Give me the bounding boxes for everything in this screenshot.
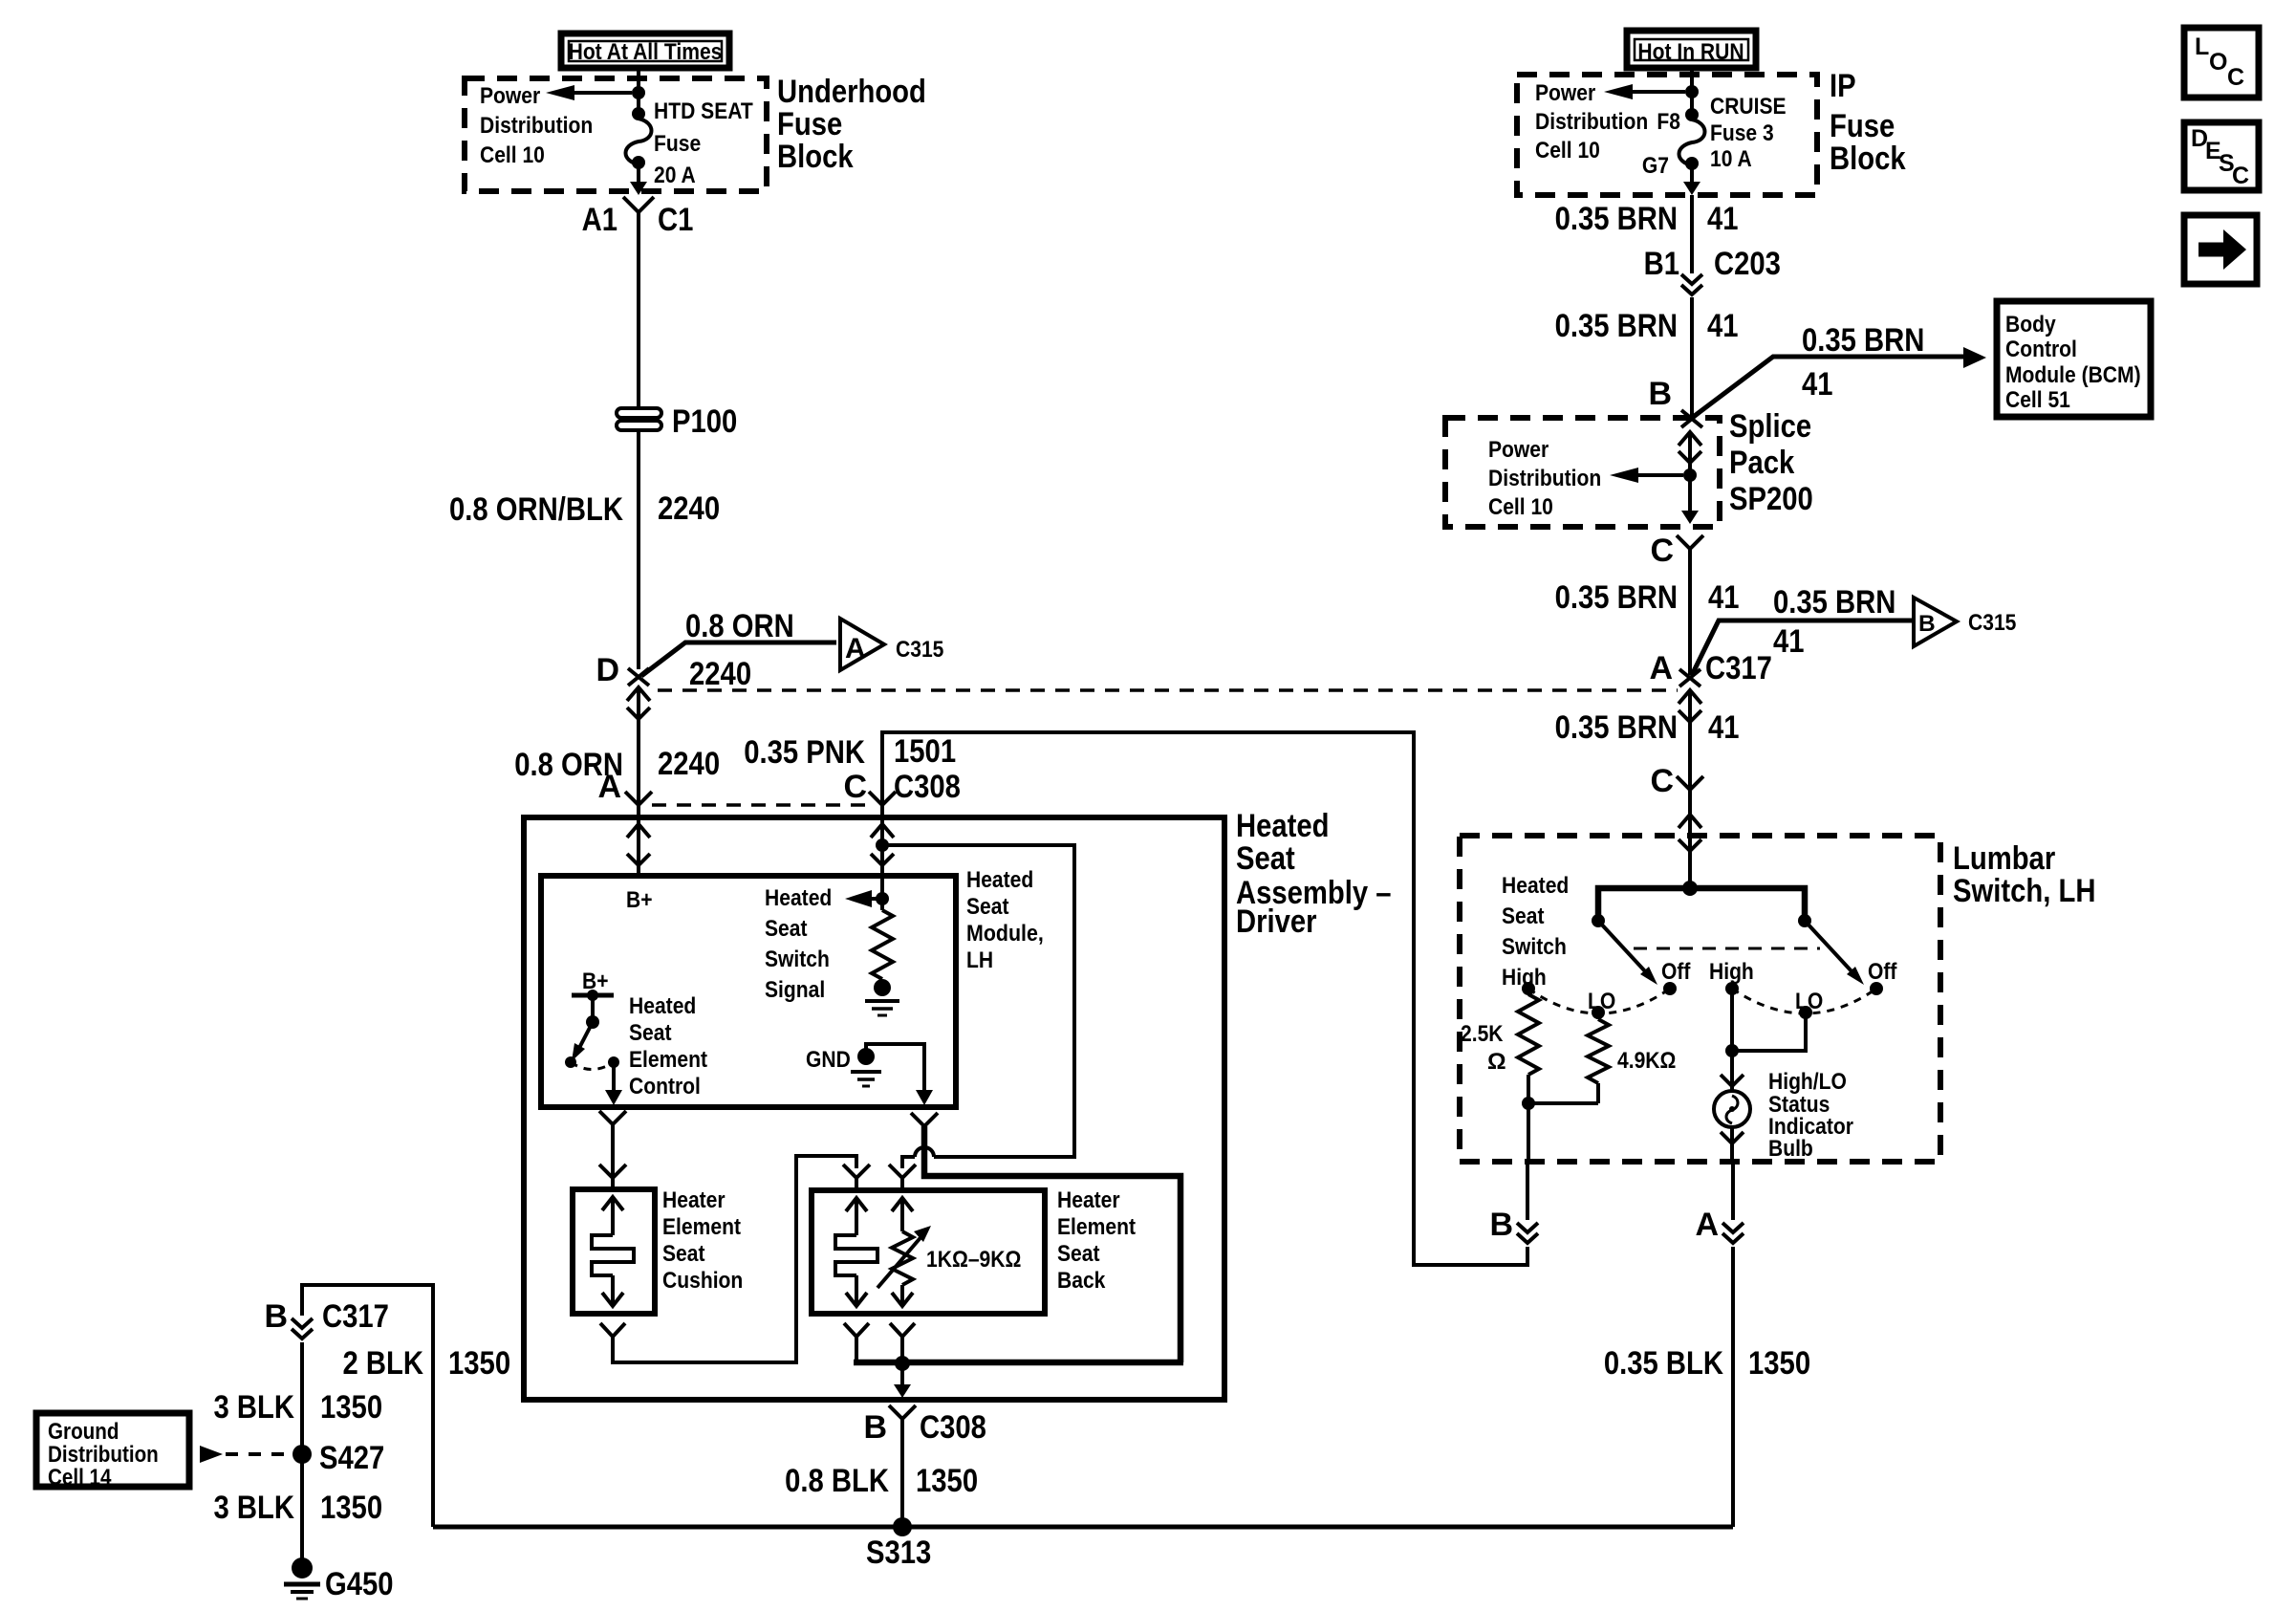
- connectors below seat back box: [844, 1323, 915, 1362]
- wire B+ feed into module: [637, 805, 640, 876]
- Body Control Module box: [1997, 301, 2151, 417]
- wire from Hot In RUN: [1690, 68, 1694, 115]
- svg-text:Control: Control: [2005, 337, 2077, 362]
- svg-text:Bulb: Bulb: [1768, 1136, 1813, 1162]
- svg-text:B: B: [1918, 611, 1936, 637]
- svg-text:C: C: [2227, 64, 2244, 91]
- branch to C315 B: [1692, 584, 2016, 675]
- connector D break: [628, 668, 649, 686]
- svg-text:C: C: [1650, 533, 1674, 569]
- svg-text:SP200: SP200: [1729, 481, 1813, 517]
- svg-text:Switch: Switch: [1502, 934, 1567, 960]
- ground bus bottom: [433, 1525, 1733, 1530]
- svg-text:O: O: [2209, 49, 2227, 76]
- svg-text:Cell 51: Cell 51: [2005, 387, 2070, 413]
- svg-text:0.35 PNK: 0.35 PNK: [744, 734, 865, 771]
- svg-text:A: A: [1695, 1207, 1719, 1243]
- heated seat switch signal arrow: [765, 885, 880, 1003]
- arrow to Power Distribution: [546, 85, 632, 100]
- svg-text:S313: S313: [866, 1535, 931, 1571]
- label Heated Seat Module, LH: [966, 867, 1044, 973]
- switch feed rail: [1598, 888, 1805, 916]
- svg-text:0.35 BRN: 0.35 BRN: [1773, 584, 1895, 620]
- contacts right pole: [1709, 959, 1897, 1019]
- Splice Pack SP200 dashed box: [1445, 418, 1720, 527]
- svg-text:2 BLK: 2 BLK: [343, 1345, 424, 1382]
- svg-text:B: B: [863, 1409, 887, 1446]
- node resistor join: [1522, 1097, 1535, 1110]
- svg-text:A: A: [597, 769, 621, 805]
- svg-text:Element: Element: [629, 1047, 707, 1073]
- svg-text:Ground: Ground: [48, 1419, 119, 1445]
- svg-text:B: B: [1648, 376, 1672, 412]
- label Heater Element Seat Cushion: [662, 1187, 743, 1294]
- svg-text:Splice: Splice: [1729, 408, 1811, 445]
- svg-text:3 BLK: 3 BLK: [214, 1389, 295, 1426]
- wire cushion to seat back series link: [613, 1156, 856, 1362]
- svg-text:C: C: [2232, 163, 2249, 189]
- svg-text:0.35 BRN: 0.35 BRN: [1555, 709, 1678, 746]
- resistor pull-up in module: [872, 876, 893, 979]
- wire out of assembly to C308 B: [894, 1363, 911, 1398]
- svg-text:Fuse: Fuse: [654, 131, 701, 157]
- svg-text:B1: B1: [1644, 246, 1679, 282]
- svg-text:0.35 BRN: 0.35 BRN: [1555, 579, 1678, 616]
- wire 0.35 BRN 41 segment 4: [1555, 709, 1740, 746]
- label Heated Seat Assembly - Driver: [1236, 808, 1392, 940]
- svg-text:Module (BCM): Module (BCM): [2005, 362, 2141, 388]
- ground bus inside assembly: [854, 1360, 1183, 1366]
- long dashed connector line C317 row: [658, 688, 1678, 692]
- svg-text:Heated: Heated: [1236, 808, 1330, 844]
- wire 0.35 BRN 41 segment 2: [1555, 297, 1739, 418]
- svg-text:Heated: Heated: [765, 885, 832, 911]
- label Splice Pack SP200: [1729, 408, 1813, 517]
- IP Fuse Block dashed box: [1517, 75, 1817, 195]
- variable resistor 1K-9K: [877, 1198, 1021, 1306]
- ground G450: [284, 1557, 394, 1602]
- svg-text:Hot In RUN: Hot In RUN: [1637, 39, 1744, 65]
- svg-text:Heated: Heated: [1502, 873, 1569, 899]
- label Heater Element Seat Back: [1057, 1187, 1136, 1294]
- connector A C317: [1649, 650, 1771, 686]
- svg-text:Fuse 3: Fuse 3: [1710, 120, 1774, 146]
- node B branch to BCM: [1648, 322, 1986, 418]
- arrow to power distribution from SP200: [1610, 468, 1683, 483]
- svg-text:41: 41: [1802, 366, 1833, 403]
- connector below module left: [599, 1111, 626, 1191]
- svg-text:1350: 1350: [1748, 1345, 1810, 1382]
- svg-text:Driver: Driver: [1236, 903, 1317, 940]
- node rail junction: [1682, 881, 1698, 896]
- ground internal sensor: [865, 979, 899, 1015]
- svg-text:Power: Power: [1535, 80, 1596, 106]
- connector A (C308): [625, 792, 652, 805]
- svg-text:1350: 1350: [320, 1490, 382, 1526]
- svg-text:A: A: [845, 633, 866, 664]
- svg-text:Heater: Heater: [662, 1187, 726, 1213]
- svg-text:0.35 BRN: 0.35 BRN: [1555, 308, 1678, 344]
- svg-text:Control: Control: [629, 1074, 701, 1099]
- svg-text:P100: P100: [672, 403, 737, 440]
- svg-text:Off: Off: [1661, 959, 1691, 985]
- svg-text:Fuse: Fuse: [777, 106, 842, 142]
- mechanical link dashed: [1634, 947, 1820, 950]
- svg-text:Seat: Seat: [1502, 903, 1545, 929]
- svg-text:C315: C315: [896, 637, 943, 663]
- Heater Element Seat Cushion box: [573, 1189, 655, 1314]
- wire 0.8 ORN/BLK 2240: [449, 430, 720, 669]
- entry arrow left: [627, 824, 650, 865]
- svg-text:2240: 2240: [658, 490, 720, 527]
- arrow to Power Distribution right: [1604, 84, 1685, 99]
- svg-text:High: High: [1709, 959, 1754, 985]
- svg-text:Distribution: Distribution: [48, 1442, 159, 1468]
- Lumbar Switch LH dashed box: [1460, 836, 1940, 1162]
- svg-text:F8: F8: [1657, 109, 1680, 135]
- wire into seat back box right input: [902, 1157, 915, 1168]
- svg-text:C1: C1: [658, 202, 693, 238]
- wire 2 BLK 1350: [343, 1345, 511, 1382]
- svg-text:Seat: Seat: [1236, 840, 1295, 877]
- wire high to bulb: [1725, 989, 1806, 1092]
- svg-text:Cell 10: Cell 10: [1535, 138, 1600, 163]
- svg-text:C203: C203: [1714, 246, 1781, 282]
- svg-text:Seat: Seat: [662, 1241, 705, 1267]
- svg-text:C308: C308: [894, 769, 961, 805]
- svg-text:Element: Element: [662, 1214, 741, 1240]
- svg-text:10 A: 10 A: [1710, 146, 1752, 172]
- svg-text:Back: Back: [1057, 1268, 1106, 1294]
- svg-text:Module,: Module,: [966, 921, 1044, 947]
- node thermistor tap: [876, 838, 889, 852]
- svg-text:Underhood: Underhood: [777, 74, 926, 110]
- label Heated Seat Switch High: [1502, 873, 1569, 991]
- svg-text:A: A: [1649, 650, 1673, 686]
- svg-text:LH: LH: [966, 947, 993, 973]
- svg-text:Power: Power: [480, 83, 541, 109]
- svg-text:B+: B+: [626, 887, 653, 913]
- svg-text:Cell 10: Cell 10: [1488, 494, 1553, 520]
- svg-text:LO: LO: [1795, 989, 1823, 1014]
- connector below module right / ground wire to bus: [911, 1113, 1180, 1362]
- connector B1 C203: [1644, 246, 1781, 294]
- wire 0.35 BRN 41 segment 1: [1555, 195, 1739, 273]
- connector B C308: [785, 1405, 986, 1527]
- connector C (C308): [869, 792, 896, 805]
- ground path top link: [302, 1285, 433, 1527]
- svg-text:41: 41: [1707, 201, 1739, 237]
- connector break at SP200 entry: [1681, 410, 1702, 427]
- arrow out of IP fuse block: [1683, 165, 1700, 195]
- contacts left pole: [1522, 959, 1691, 1019]
- svg-text:Heated: Heated: [629, 993, 696, 1019]
- legend box arrow: [2184, 215, 2257, 284]
- grommet P100: [617, 403, 737, 440]
- svg-text:20 A: 20 A: [654, 163, 696, 188]
- node S ground bus: [895, 1356, 910, 1371]
- arrow out of fuse block: [630, 164, 647, 195]
- labels 0.35 PNK 1501: [597, 733, 960, 805]
- svg-text:IP: IP: [1830, 68, 1856, 104]
- svg-text:C315: C315: [1968, 610, 2016, 636]
- connector A1 C1: [582, 197, 694, 238]
- svg-text:G7: G7: [1642, 153, 1669, 179]
- entry arrow right: [871, 824, 894, 865]
- legend box LOC: [2184, 28, 2259, 98]
- svg-text:0.35 BLK: 0.35 BLK: [1604, 1345, 1723, 1382]
- label box "Hot At All Times": [561, 33, 729, 68]
- svg-text:Cell 14: Cell 14: [48, 1465, 112, 1491]
- wire from Hot At All Times into fuse block: [637, 68, 640, 113]
- svg-text:GND: GND: [806, 1047, 851, 1073]
- svg-text:Power: Power: [1488, 437, 1549, 463]
- connector C below SP200: [1650, 533, 1703, 569]
- svg-text:1501: 1501: [894, 733, 956, 770]
- Heated Seat Assembly outer box: [524, 817, 1224, 1400]
- svg-text:0.8 BLK: 0.8 BLK: [785, 1463, 889, 1499]
- svg-text:1350: 1350: [320, 1389, 382, 1426]
- fuse F2 CRUISE Fuse 3 10A: [1642, 94, 1787, 179]
- svg-text:C317: C317: [322, 1298, 389, 1335]
- svg-text:A1: A1: [582, 202, 617, 238]
- connector below cushion box: [600, 1323, 625, 1337]
- label IP Fuse Block: [1830, 68, 1906, 177]
- switch pole left: [1592, 914, 1657, 985]
- connector C into lumbar: [1650, 763, 1703, 799]
- svg-text:S427: S427: [319, 1440, 384, 1476]
- svg-text:1350: 1350: [916, 1463, 978, 1499]
- svg-text:Heated: Heated: [966, 867, 1033, 893]
- dashed connector line C308: [652, 803, 869, 807]
- svg-text:3 BLK: 3 BLK: [214, 1490, 295, 1526]
- Heater Element Seat Back box: [812, 1190, 1045, 1314]
- wire into lumbar switch: [1679, 790, 1701, 888]
- svg-text:2240: 2240: [689, 656, 751, 692]
- svg-text:HTD SEAT: HTD SEAT: [654, 98, 753, 124]
- svg-text:Element: Element: [1057, 1214, 1136, 1240]
- svg-text:41: 41: [1708, 579, 1740, 616]
- svg-text:LO: LO: [1588, 989, 1615, 1014]
- svg-text:G450: G450: [325, 1566, 394, 1602]
- wire 0.35 BLK 1350: [1604, 1247, 1810, 1527]
- svg-text:Switch: Switch: [765, 947, 830, 972]
- svg-text:Lumbar: Lumbar: [1953, 840, 2055, 877]
- svg-text:41: 41: [1773, 623, 1805, 660]
- svg-text:Seat: Seat: [966, 894, 1009, 920]
- node SP200: [1683, 468, 1697, 482]
- wire 0.35 BRN 41 segment 3: [1555, 549, 1740, 675]
- indicator bulb: [1714, 1075, 1750, 1162]
- svg-text:Heater: Heater: [1057, 1187, 1120, 1213]
- label Lumbar Switch, LH: [1953, 840, 2096, 909]
- GND node in module: [806, 1044, 933, 1105]
- svg-text:C308: C308: [920, 1409, 986, 1446]
- Heated Seat Module box: [541, 876, 956, 1107]
- svg-text:Distribution: Distribution: [480, 113, 593, 139]
- svg-text:L: L: [2195, 33, 2209, 60]
- arrow out of splice pack: [1681, 475, 1699, 524]
- svg-text:Cell 10: Cell 10: [480, 142, 545, 168]
- svg-text:Hot At All Times: Hot At All Times: [569, 39, 723, 65]
- svg-text:Off: Off: [1868, 959, 1897, 985]
- connector into seat back box: [889, 1165, 916, 1178]
- svg-text:C: C: [1650, 763, 1674, 799]
- node D branch to C315 A: [596, 608, 836, 692]
- fuse F1 HTD SEAT 20A: [626, 98, 753, 188]
- connector B below lumbar: [1489, 1162, 1538, 1243]
- label box "Hot In RUN": [1627, 31, 1756, 68]
- svg-text:0.35 BRN: 0.35 BRN: [1555, 201, 1678, 237]
- svg-text:Cushion: Cushion: [662, 1268, 743, 1294]
- entry arrow below D: [627, 687, 650, 732]
- wire 3 BLK 1350 upper: [214, 1342, 383, 1562]
- entry arrow into splice pack: [1679, 432, 1701, 475]
- svg-text:Switch, LH: Switch, LH: [1953, 873, 2096, 909]
- connector B C317 left: [264, 1298, 388, 1339]
- svg-text:Block: Block: [1830, 141, 1906, 177]
- Ground Distribution Cell 14 box: [36, 1413, 189, 1491]
- label Underhood Fuse Block: [777, 74, 926, 175]
- connector into seat back box left: [843, 1165, 870, 1191]
- connector A below lumbar: [1695, 1162, 1744, 1243]
- node feed junction: [632, 86, 645, 99]
- svg-text:Signal: Signal: [765, 977, 825, 1003]
- svg-text:D: D: [596, 652, 619, 688]
- wire 0.8 ORN 2240 lower: [514, 732, 720, 805]
- svg-text:1KΩ–9KΩ: 1KΩ–9KΩ: [926, 1247, 1021, 1273]
- svg-text:B: B: [264, 1298, 288, 1335]
- svg-text:41: 41: [1708, 709, 1740, 746]
- node S427: [292, 1440, 384, 1476]
- svg-text:1350: 1350: [448, 1345, 510, 1382]
- svg-text:Seat: Seat: [1057, 1241, 1100, 1267]
- svg-text:High/LO: High/LO: [1768, 1069, 1847, 1095]
- svg-text:Ω: Ω: [1487, 1049, 1506, 1075]
- node S313: [866, 1517, 931, 1571]
- svg-text:Body: Body: [2005, 312, 2056, 337]
- svg-text:2240: 2240: [658, 746, 720, 782]
- resistor 4.9K: [1528, 1012, 1676, 1103]
- svg-text:4.9KΩ: 4.9KΩ: [1617, 1048, 1676, 1074]
- arrow from ground distribution: [200, 1446, 289, 1463]
- svg-text:CRUISE: CRUISE: [1710, 94, 1787, 120]
- svg-text:B: B: [1489, 1207, 1513, 1243]
- label Heated Seat Element Control: [629, 993, 707, 1099]
- label High/LO Status Indicator Bulb: [1768, 1069, 1853, 1162]
- svg-text:Pack: Pack: [1729, 445, 1794, 481]
- wire hop over module ground wire: [915, 1147, 934, 1157]
- entry arrow below C317: [1679, 690, 1701, 790]
- wire down to P100: [637, 212, 640, 409]
- svg-text:C317: C317: [1705, 650, 1772, 686]
- switch heated seat element control: [565, 990, 622, 1105]
- svg-text:41: 41: [1707, 308, 1739, 344]
- svg-text:Distribution: Distribution: [1488, 466, 1601, 491]
- svg-text:Distribution: Distribution: [1535, 109, 1648, 135]
- wire 0.35 PNK to lumbar switch B: [882, 732, 1527, 1265]
- legend box DESC: [2184, 122, 2259, 190]
- connector triangle A C315: [840, 619, 943, 670]
- node feed junction right: [1685, 85, 1699, 98]
- wire signal feed into module: [880, 805, 884, 876]
- svg-text:Seat: Seat: [629, 1020, 672, 1046]
- svg-text:0.8 ORN/BLK: 0.8 ORN/BLK: [449, 491, 623, 528]
- wire to seat back sensor: [882, 845, 1074, 1157]
- svg-text:2.5K: 2.5K: [1461, 1021, 1504, 1047]
- switch pole right: [1798, 914, 1864, 985]
- wire 3 BLK 1350 lower: [214, 1490, 383, 1526]
- svg-text:C: C: [843, 769, 867, 805]
- resistor 2.5K: [1461, 989, 1539, 1162]
- svg-text:0.8 ORN: 0.8 ORN: [685, 608, 794, 644]
- svg-text:Fuse: Fuse: [1830, 108, 1895, 144]
- svg-text:Seat: Seat: [765, 916, 808, 942]
- svg-text:Block: Block: [777, 139, 854, 175]
- svg-text:0.35 BRN: 0.35 BRN: [1802, 322, 1924, 359]
- Underhood Fuse Block dashed box: [465, 78, 767, 191]
